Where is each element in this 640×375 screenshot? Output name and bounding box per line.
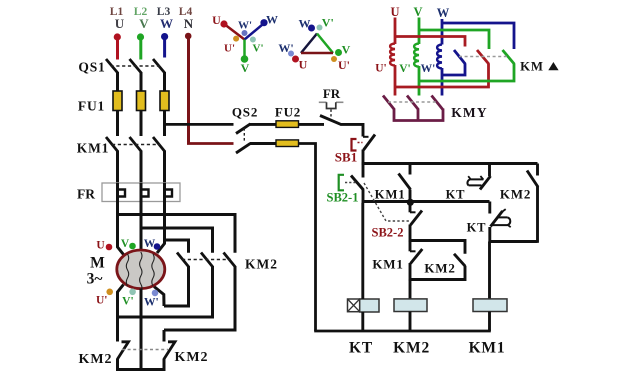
delta W dot (308, 25, 315, 32)
fuse FU1 element 1 (113, 91, 122, 111)
wire W top (441, 19, 444, 45)
winding W coil (437, 45, 442, 69)
wire KMdelta p2 return (red) (395, 64, 489, 88)
wire SB2-2 down (409, 225, 412, 242)
contactor KMdelta label (520, 60, 558, 74)
wire to KM1 coil (488, 242, 491, 300)
relay FR contact link dashed (330, 110, 332, 118)
delta edge bottom (dark red) (301, 52, 333, 55)
motor winding squiggle 1 (126, 254, 128, 286)
svg-text:KM: KM (520, 60, 544, 74)
button SB2-1 actuator bracket (339, 175, 344, 191)
wire control bus2 (362, 200, 490, 203)
wire W' from motor (154, 287, 164, 307)
fuse FU2 element bottom (276, 140, 299, 147)
svg-text:FU2: FU2 (275, 105, 301, 120)
wire V to KMdelta p2 (419, 30, 489, 49)
button SB1 actuator bracket (352, 139, 357, 151)
wire bottom rail (314, 330, 491, 333)
wire KM2 b2 to V' (118, 266, 213, 317)
wire QS2 to FU2 top (250, 123, 277, 126)
svg-text:V: V (241, 61, 250, 75)
wire branch to KM2 NO parallel (410, 241, 465, 254)
relay FR box (102, 183, 180, 202)
wire V' from motor down (140, 289, 143, 370)
contactor KM2 middle link dashed (182, 259, 231, 261)
wire phase A QS1 to FU1 (116, 72, 119, 92)
svg-text:V': V' (122, 296, 134, 308)
wire N line vertical (187, 38, 190, 144)
motor M circle (117, 250, 165, 289)
button SB2-2 fixed tick (410, 211, 416, 213)
delta U dot (292, 56, 299, 63)
relay FR contact symbol ticks (319, 102, 344, 108)
wire L3 stub (163, 39, 166, 58)
contactor KM1 NC fixed tick (410, 250, 416, 252)
svg-text:U: U (115, 16, 125, 31)
svg-text:KM2: KM2 (500, 187, 531, 202)
svg-text:FU1: FU1 (78, 99, 105, 114)
delta edge right (green) (317, 34, 333, 54)
switch QS1 blade 1 (106, 59, 118, 73)
wire KMY star bus (394, 109, 443, 121)
button SB2-1 link dashed (345, 182, 356, 184)
svg-text:KM2: KM2 (78, 352, 112, 367)
contactor KM2 bottom-left lower wire (116, 359, 119, 370)
contactor KMY blade 1 (383, 96, 394, 110)
relay KT NC delayed blade (491, 211, 503, 227)
svg-text:V: V (342, 43, 351, 57)
star U line (226, 25, 245, 40)
wire W' down to KMY (441, 68, 444, 96)
winding V coil (414, 44, 419, 67)
wire phase A FU1 to KM1 (116, 111, 119, 137)
wire SB2-1 to bus2 (362, 190, 365, 203)
contactor KM1 blade 3 (153, 137, 165, 152)
contactor KM2 bottom link dashed (122, 349, 168, 351)
wire KMdelta p3 return (green) (419, 64, 514, 82)
wire KM2 NO right down (536, 187, 539, 243)
star U' dot (233, 36, 239, 42)
contactor KM2 middle blade 2 (201, 253, 213, 268)
node L3 label (157, 6, 173, 31)
motor terminal W' dot (152, 290, 159, 297)
star W dot (260, 19, 267, 26)
wire W to KMdelta p3 (442, 23, 514, 49)
node L4/N label (179, 6, 194, 31)
switch QS1 blade 3 (153, 59, 165, 73)
svg-text:KM1: KM1 (469, 340, 506, 357)
motor terminal V dot (129, 243, 136, 250)
wire V top (418, 18, 421, 45)
relay KT NO delayed blade (480, 176, 491, 190)
svg-text:W': W' (421, 63, 436, 75)
wire U top (394, 18, 397, 45)
svg-text:U: U (390, 5, 399, 19)
wire KM2-R upper (163, 330, 166, 342)
relay KT NO delayed parachute (469, 179, 484, 185)
wire SB1 to bus node (362, 150, 365, 165)
contactor KMdelta link dashed (459, 56, 509, 58)
motor winding squiggle 2 (140, 252, 142, 292)
wire KM2 NO parallel down (410, 266, 465, 280)
contactor KM1 blade 1 (106, 137, 118, 152)
wire to KM2 coil (409, 280, 412, 300)
wire delta tap B (141, 228, 213, 253)
delta V dot (335, 49, 342, 56)
button link dashed SB2-1 to SB2-2 (364, 183, 409, 221)
node L2 terminal dot (137, 33, 144, 40)
contactor KM2 middle blade 3 (224, 253, 236, 268)
svg-text:SB2-1: SB2-1 (327, 191, 359, 205)
wire KM2 coil to rail (409, 312, 412, 332)
wire KMY star mid leg (417, 109, 420, 121)
svg-text:KM2: KM2 (245, 256, 278, 271)
wire KM1 NC down (409, 263, 412, 281)
button SB1 fixed tick (363, 136, 369, 138)
relay KT NC delayed upper wire (488, 202, 491, 214)
motor terminal V' dot (129, 289, 136, 296)
wire phase A KM1 to FR (116, 151, 119, 185)
node L3 terminal dot (161, 33, 168, 40)
wire QS2 to FU2 bottom (250, 142, 277, 145)
contactor KMdelta blade 1 (navy) (454, 50, 465, 64)
contactor KM1 blade 2 (130, 137, 142, 152)
contactor KMY blade 2 (407, 96, 418, 110)
wire N to QS2 (187, 142, 234, 145)
svg-text:W': W' (238, 20, 252, 32)
svg-text:U: U (96, 240, 105, 252)
winding U coil (390, 44, 395, 66)
button SB2-2 blade (411, 211, 423, 226)
wire phase B QS1 to FU1 (140, 72, 143, 92)
contactor KMY blade 3 (432, 96, 443, 110)
wire phase B FU1 to KM1 (140, 111, 143, 137)
wire phase A FR to motor (118, 202, 124, 255)
wire phase C KM1 to FR (163, 151, 166, 185)
wire KM1 coil to rail (488, 312, 491, 332)
wire U' from motor down (118, 285, 124, 342)
wire KM2 b3 to bottom KM2 (164, 266, 235, 330)
fuse FU1 element 2 (137, 91, 146, 111)
wire L1 stub (116, 39, 119, 60)
fuse FU1 element 3 (160, 91, 169, 111)
svg-text:V: V (121, 238, 130, 250)
svg-text:V': V' (253, 43, 264, 55)
contactor KM1 aux lower wire (409, 190, 412, 202)
wire U' down to KMY (394, 65, 397, 96)
contactor KM1 NC upper wire (409, 241, 412, 252)
svg-text:FR: FR (323, 86, 341, 101)
delta edge left (navy) (301, 34, 317, 54)
node L4 terminal dot (185, 33, 192, 40)
button SB1 link dashed (358, 142, 363, 144)
star V line (243, 40, 246, 58)
svg-text:KT: KT (446, 188, 466, 202)
svg-text:U': U' (375, 63, 387, 75)
svg-text:V: V (413, 5, 422, 19)
motor terminal U dot (106, 244, 113, 251)
contactor KM1 aux blade (399, 174, 411, 190)
svg-text:N: N (184, 16, 194, 31)
node L1 label (110, 6, 125, 31)
contactor KM2 bottom-right blade (164, 342, 175, 359)
star V dot (241, 55, 249, 63)
contactor KMdelta blade 2 (red) (477, 50, 489, 64)
svg-text:3~: 3~ (87, 271, 103, 288)
wire phase B FR to motor (140, 202, 143, 252)
contactor KM1 link dashed (112, 144, 160, 146)
wire L2 stub (139, 39, 142, 60)
svg-text:KM2: KM2 (424, 261, 455, 276)
wire FR to SB1 corner (341, 124, 363, 136)
relay FR heater phase C (165, 183, 173, 202)
svg-text:SB2-2: SB2-2 (372, 226, 404, 240)
svg-text:KM1: KM1 (375, 187, 406, 201)
wire FU2 top to FR contact (299, 123, 325, 126)
wire KM2 b1 to W' (164, 266, 189, 306)
node L2 label (134, 6, 150, 31)
svg-text:U': U' (338, 58, 350, 72)
wire phase B KM1 to FR (140, 151, 143, 185)
switch QS2 link dashed (243, 128, 245, 142)
delta W' dot (288, 51, 294, 57)
wire KT NC down (488, 227, 491, 243)
svg-text:KM1: KM1 (372, 257, 403, 272)
contactor KM2 NO right blade (527, 171, 538, 188)
wire V' down to KMY (418, 66, 421, 96)
delta U' dot (331, 56, 337, 62)
switch QS2 blade 1 (236, 124, 251, 134)
contactor KM2 middle blade 1 (177, 253, 189, 268)
svg-text:U: U (212, 13, 221, 27)
fuse FU2 element top (276, 121, 299, 128)
button SB1 blade (364, 135, 376, 151)
contactor KM2 NO parallel blade (454, 254, 465, 266)
relay FR NC contact blade (320, 116, 342, 125)
svg-text:U': U' (224, 43, 235, 55)
contactor KM2 bottom-right lower wire (163, 359, 166, 370)
svg-text:U: U (299, 58, 308, 72)
wire phase C QS1 to FU1 (163, 72, 166, 92)
wire control top bus (362, 162, 538, 165)
relay FR heater phase B (141, 183, 149, 202)
button SB2-2 upper wire (409, 202, 412, 213)
contactor KM2 bottom-left blade (118, 342, 129, 359)
coil KM2 box (394, 299, 427, 312)
svg-text:M: M (90, 255, 105, 272)
switch QS1 blade 2 (130, 59, 142, 73)
svg-text:SB1: SB1 (335, 150, 357, 165)
svg-text:FR: FR (77, 187, 95, 202)
star U dot (220, 20, 227, 27)
svg-text:V': V' (322, 16, 334, 30)
wire delta tap C (165, 240, 189, 253)
star W' dot (242, 30, 248, 36)
svg-text:W: W (160, 16, 173, 31)
relay KT NO delayed upper wire (488, 164, 491, 177)
star W line (245, 25, 263, 40)
contactor KM1 aux upper wire (409, 164, 412, 175)
button SB2-1 blade (351, 176, 364, 191)
wire star point bus (116, 368, 166, 371)
switch QS2 blade 2 (236, 143, 251, 153)
svg-text:W: W (144, 238, 156, 250)
svg-text:V: V (139, 16, 149, 31)
svg-text:KT: KT (349, 340, 373, 357)
contactor KMdelta blade 3 (green) (503, 50, 515, 64)
motor terminal W dot (154, 243, 161, 250)
wire FU2 bottom to left rail (299, 144, 316, 332)
svg-text:W': W' (144, 297, 159, 309)
wire parallel bottom join (490, 240, 538, 243)
svg-text:V': V' (399, 63, 411, 75)
contactor KM1 NC blade (411, 249, 423, 264)
wire phase C FR to motor (157, 202, 165, 254)
node junction dot (407, 199, 414, 206)
svg-text:KM2: KM2 (174, 350, 208, 365)
motor terminal U' dot (106, 289, 113, 296)
wire U to KMdelta p1 (395, 37, 465, 47)
wire control tap from phase C (165, 123, 234, 126)
wire into KT coil (361, 203, 364, 299)
svg-text:U': U' (96, 295, 108, 307)
star V' dot (250, 37, 256, 43)
wire phase C FU1 to KM1 (163, 111, 166, 137)
contactor KMY link dashed (388, 101, 437, 103)
button SB2-1 upper wire (362, 164, 365, 178)
coil KM1 box (473, 299, 507, 312)
wire KT coil to rail (361, 312, 364, 331)
delta V' dot (317, 25, 323, 31)
svg-text:QS1: QS1 (78, 60, 105, 75)
svg-text:KM2: KM2 (393, 340, 430, 357)
relay FR heater phase A (118, 183, 126, 202)
switch QS1 link dashed (111, 65, 161, 67)
svg-text:QS2: QS2 (232, 105, 258, 120)
wire delta tap A (118, 215, 236, 253)
contactor KM2 NO right upper wire (536, 164, 539, 176)
svg-text:KMY: KMY (451, 105, 488, 120)
coil KT timer box (348, 299, 380, 312)
relay KT NC delayed parachute (493, 217, 508, 225)
wire KMdelta p1 return (navy) (442, 64, 465, 76)
svg-text:KT: KT (467, 221, 487, 235)
svg-text:W: W (266, 13, 278, 27)
svg-text:KM1: KM1 (77, 141, 109, 156)
motor winding squiggle 3 (152, 254, 154, 286)
svg-text:W: W (437, 6, 450, 20)
node L1 terminal dot (114, 33, 121, 40)
